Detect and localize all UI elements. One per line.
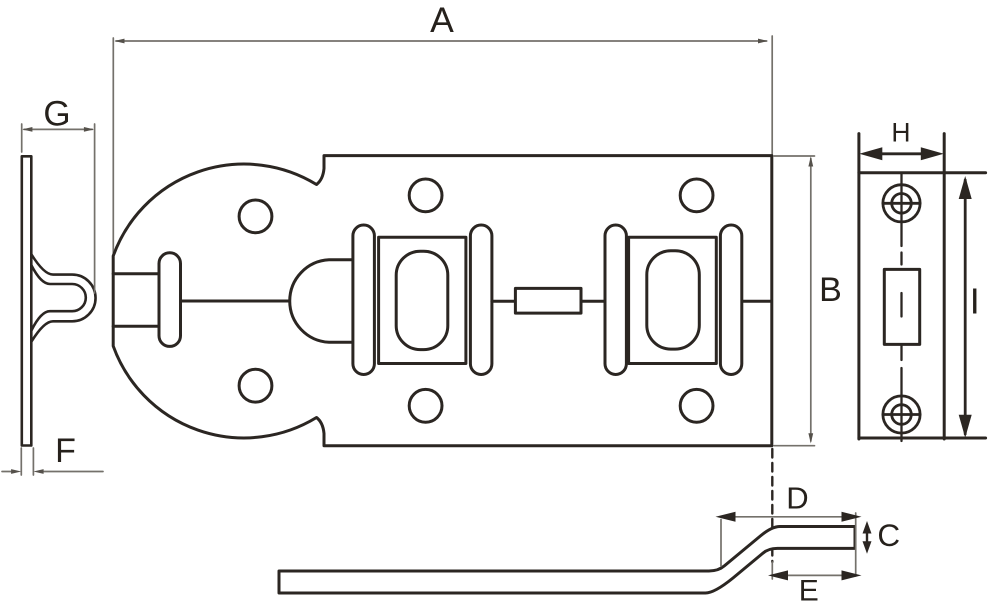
svg-text:C: C (877, 517, 900, 553)
dimension B extension bottom (774, 445, 815, 447)
dimension H line (859, 147, 944, 160)
dimension I line (959, 176, 972, 438)
hole round-part top (239, 200, 272, 233)
svg-text:F: F (55, 432, 76, 470)
hole round-part bottom (239, 369, 272, 402)
keeper plate right edge (943, 134, 946, 439)
guide2 right capsule (720, 225, 741, 375)
dimension F line (2, 469, 103, 474)
keeper plate top edge (859, 171, 986, 174)
dimension G line (22, 127, 94, 132)
bolt end capsule (159, 253, 181, 347)
svg-text:B: B (819, 271, 842, 309)
dimension A extension line right (771, 36, 773, 155)
svg-text:D: D (786, 481, 808, 516)
bolt neck top line (113, 272, 160, 275)
keeper plate left edge (857, 134, 860, 439)
bolt neck bottom line (113, 325, 160, 328)
dashed projection line (771, 449, 773, 562)
guide1 slot stadium (396, 251, 448, 349)
dimension A extension line left (112, 38, 114, 256)
connector line right (581, 300, 605, 303)
keeper centerline segments (900, 174, 902, 442)
dimension D line (716, 512, 862, 522)
main plate outline (113, 156, 772, 446)
left profile loop inner (32, 266, 86, 331)
rod line right (742, 300, 771, 303)
hole plate top-right (680, 179, 713, 212)
dimension B line (808, 156, 813, 443)
dimension D/E extension right (855, 513, 857, 576)
keeper plate bottom edge (859, 437, 986, 440)
dimension G extension left (21, 124, 23, 152)
dimension G extension right (94, 124, 96, 293)
left profile loop outer (32, 255, 96, 342)
dimension B extension top (774, 155, 815, 157)
dimension C arrows (863, 521, 872, 554)
keeper slot (884, 269, 919, 344)
dimension E line (768, 570, 862, 580)
guide2 left capsule (605, 225, 626, 375)
hole plate top-left (409, 179, 442, 212)
keeper screw bottom (883, 396, 920, 433)
guide2 slot stadium (647, 251, 700, 349)
svg-text:H: H (891, 118, 910, 148)
svg-text:G: G (43, 95, 70, 134)
dimension A line (114, 39, 768, 44)
guide1 left capsule (353, 225, 375, 375)
svg-text:E: E (799, 575, 819, 608)
svg-text:I: I (970, 281, 980, 322)
bolt arch (290, 260, 366, 343)
guide1 frame (379, 237, 466, 363)
svg-text:A: A (430, 0, 454, 40)
bolt bar outline (279, 527, 855, 594)
guide2 frame (629, 237, 717, 363)
hole plate bottom-left (409, 389, 442, 422)
bolt rod line left (181, 300, 290, 303)
keeper screw top (883, 185, 920, 222)
hole plate bottom-right (680, 389, 713, 422)
connector rect (515, 288, 581, 313)
dimension F extension left (20, 448, 22, 475)
dimension F extension right (32, 448, 34, 475)
left profile strip (22, 156, 32, 445)
dimension D extension left (720, 520, 722, 567)
guide1 right capsule (470, 225, 492, 375)
E extension lower (771, 562, 773, 579)
connector line left (492, 300, 516, 303)
